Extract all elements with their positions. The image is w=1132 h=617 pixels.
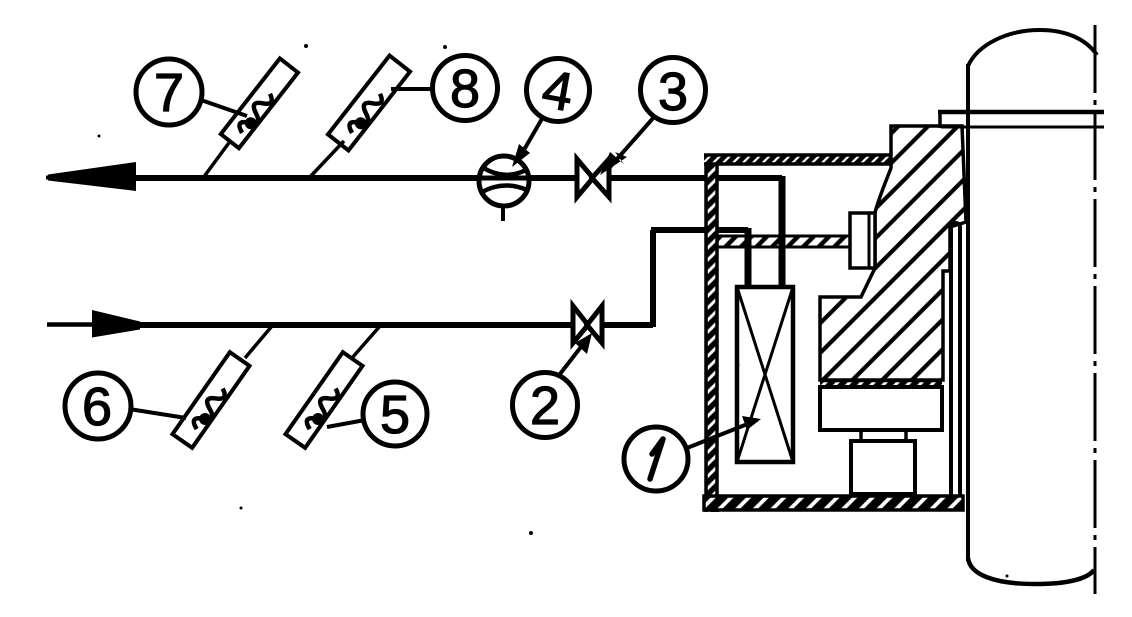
svg-text:7: 7 xyxy=(154,63,184,123)
svg-text:5: 5 xyxy=(380,385,410,445)
svg-text:2: 2 xyxy=(530,376,560,436)
svg-text:8: 8 xyxy=(450,59,480,119)
svg-text:3: 3 xyxy=(658,62,688,122)
svg-text:6: 6 xyxy=(82,377,112,437)
